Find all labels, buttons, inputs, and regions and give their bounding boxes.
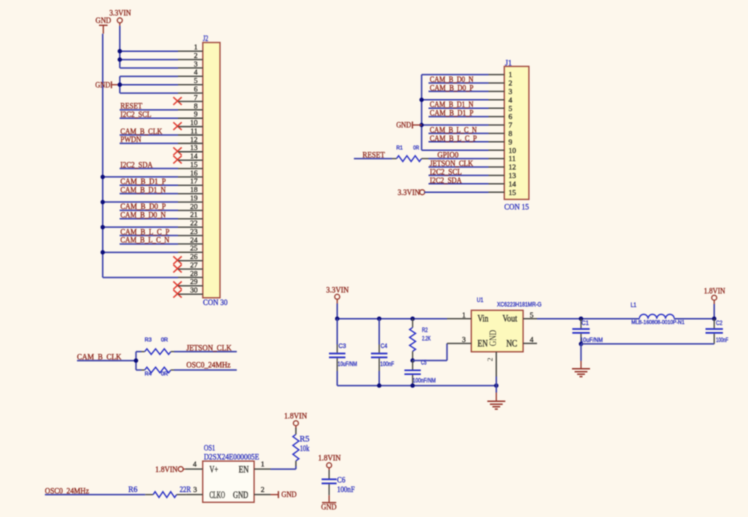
power port 1.8VIN (regulator output) [704, 286, 725, 304]
svg-text:3: 3 [193, 485, 197, 494]
no-connect X at J2 pin 27 [173, 265, 181, 273]
svg-text:2: 2 [486, 357, 495, 361]
net label CAM_B_CLK [120, 127, 162, 136]
svg-text:3.3VIN: 3.3VIN [398, 188, 421, 197]
net label CAM_B_D1_P [120, 177, 166, 186]
power port GND at J1 pin 7 [396, 121, 421, 130]
junction J2 pin1 [118, 49, 122, 53]
junction GND rail at J2 pin 25 [101, 250, 105, 254]
no-connect X at J2 pin 30 [173, 290, 181, 298]
wire C2 bottom to C1 bottom [581, 343, 714, 345]
no-connect X at J2 pin 13 [173, 147, 181, 155]
svg-text:R6: R6 [128, 485, 137, 494]
svg-text:GPIO0: GPIO0 [437, 151, 458, 160]
net label CAM_B_L_C_P [430, 134, 477, 143]
wire J1 pin 14 net I2C2_SDA [429, 183, 489, 185]
wire U1 Vout to C1/L1 [537, 318, 639, 320]
svg-text:5: 5 [530, 310, 534, 319]
wire J1 pin 8 net CAM_B_L_C_N [429, 132, 489, 134]
junction bottom rail U1 GND [494, 383, 498, 387]
net label I2C2_SCL [430, 167, 462, 176]
svg-text:0R: 0R [161, 338, 168, 344]
junction J2 pin2 [118, 57, 122, 61]
svg-text:22R: 22R [180, 485, 192, 494]
wire J2 pin 8 net RESET [120, 109, 178, 111]
junction splitter [134, 358, 138, 362]
inductor L1 MLB-160808-0010P-N1 [631, 303, 685, 326]
svg-text:GND: GND [281, 490, 296, 499]
net label CAM_B_D0_P [120, 202, 166, 211]
wire J1 pin 13 net I2C2_SCL [429, 174, 489, 176]
wire J2 pins 4-6 bracket [120, 76, 178, 93]
svg-text:2.2K: 2.2K [422, 336, 431, 342]
svg-text:R1: R1 [396, 146, 403, 152]
wire J2 pin 12 net PWDN [120, 142, 178, 144]
svg-text:1.8VIN: 1.8VIN [284, 411, 307, 420]
svg-text:Vout: Vout [503, 314, 518, 324]
svg-text:30: 30 [190, 286, 198, 295]
net label CAM_B_D1_P [430, 109, 474, 118]
net label OSC0_24MHz (bottom) [45, 487, 90, 496]
svg-text:1.8VIN: 1.8VIN [318, 453, 341, 462]
capacitor C3 10uF/NM [329, 319, 357, 386]
svg-text:CLKO: CLKO [210, 491, 226, 501]
svg-text:CON 15: CON 15 [504, 202, 529, 211]
wire OSC0_24MHz to R6 [45, 494, 145, 496]
svg-text:J1: J1 [505, 58, 512, 67]
svg-text:MLB-160808-0010P-N1: MLB-160808-0010P-N1 [631, 320, 684, 326]
svg-text:GND: GND [96, 16, 112, 25]
wire J2 pin 18 net CAM_B_D1_N [120, 193, 178, 195]
net label RESET [120, 102, 142, 111]
junction Vout C1 [579, 317, 583, 321]
wire J2 pin 21 net CAM_B_D0_N [120, 218, 178, 220]
svg-text:CAM_B_L_C_P: CAM_B_L_C_P [430, 134, 477, 143]
resistor R1 0R [392, 146, 429, 162]
svg-text:XC6223H181MR-G: XC6223H181MR-G [497, 302, 542, 309]
svg-text:CAM_B_D1_N: CAM_B_D1_N [120, 185, 166, 194]
wire J1 pin 5 net CAM_B_D1_N [429, 107, 489, 109]
svg-text:3: 3 [462, 335, 466, 344]
power port GND (top left) [96, 16, 112, 34]
junction J1 pin4 [419, 98, 423, 102]
svg-text:NC: NC [506, 339, 517, 349]
resistor R2 2.2K [410, 319, 431, 361]
wire R1 to J1 pin 11 net GPIO0 [429, 158, 489, 160]
svg-text:100nF: 100nF [337, 485, 355, 494]
svg-text:CAM_B_D1_P: CAM_B_D1_P [430, 109, 474, 118]
ground below C1 [572, 344, 590, 377]
capacitor C5 100nF/NM [404, 361, 435, 386]
junction GND rail at J2 pin 22 [101, 225, 105, 229]
svg-text:C5: C5 [421, 361, 427, 367]
svg-text:C3: C3 [339, 344, 347, 350]
wire 3.3VIN to J2 pins 1-3 [120, 26, 178, 68]
power port GND at J2 pins 4-6 [95, 80, 120, 89]
junction 1.8VIN C2 [712, 317, 716, 321]
wire R5 to OS1 EN [271, 468, 296, 470]
net label GPIO0 [437, 151, 458, 160]
junction bottom rail C4 [377, 383, 381, 387]
svg-text:J2: J2 [203, 34, 208, 43]
junction top rail C3 [335, 317, 339, 321]
power port 1.8VIN at C6 [318, 453, 341, 470]
resistor R3 0R [136, 338, 174, 355]
svg-text:1: 1 [261, 460, 265, 469]
net label JETSON_CLK [186, 344, 231, 353]
net label PWDN [120, 135, 141, 144]
svg-text:OS1: OS1 [204, 443, 215, 452]
junction GND rail at J2 pin 19 [101, 200, 105, 204]
junction J2 pin5 GND [118, 83, 122, 87]
svg-text:15: 15 [509, 188, 517, 197]
ground below U1 [487, 386, 505, 410]
svg-text:L1: L1 [631, 303, 637, 309]
svg-text:CON 30: CON 30 [203, 298, 228, 307]
svg-text:10k: 10k [300, 444, 310, 453]
wire J2 pin 24 net CAM_B_L_C_N [120, 243, 178, 245]
net label CAM_B_D1_N [120, 185, 166, 194]
svg-text:R5: R5 [300, 434, 310, 443]
svg-text:CAM_B_D0_N: CAM_B_D0_N [120, 211, 166, 220]
svg-text:CAM_B_L_C_N: CAM_B_L_C_N [120, 236, 169, 245]
power port GND below C6 [321, 495, 337, 511]
svg-text:R2: R2 [422, 328, 428, 334]
wire J1 pin 3 net CAM_B_D0_P [429, 90, 489, 92]
junction J1 pin7 [419, 123, 423, 127]
svg-text:0R: 0R [161, 372, 168, 378]
svg-text:4: 4 [530, 335, 534, 344]
net label OSC0_24MHz [186, 361, 231, 370]
junction C1 bottom node [579, 342, 583, 346]
svg-text:3.3VIN: 3.3VIN [109, 9, 131, 18]
wire J1 pin 9 net CAM_B_L_C_P [429, 141, 489, 143]
svg-text:GND: GND [95, 80, 110, 89]
svg-text:1.8VIN: 1.8VIN [155, 465, 178, 474]
svg-text:EN: EN [478, 339, 488, 349]
wire J2 pin 17 net CAM_B_D1_P [120, 184, 178, 186]
svg-text:10uF/NM: 10uF/NM [580, 338, 603, 344]
svg-text:100nF: 100nF [716, 338, 728, 344]
wire bottom rail [337, 385, 496, 387]
wire R4 to OSC0_24MHz [174, 369, 237, 371]
junction R2/C5/EN node [410, 358, 414, 362]
svg-text:R3: R3 [145, 338, 152, 344]
resistor R5 10k [293, 428, 310, 469]
svg-text:D2SX24E000005E: D2SX24E000005E [204, 452, 259, 461]
no-connect X at J2 pin 29 [173, 281, 181, 289]
net label RESET [363, 151, 385, 160]
wire J1 pin 6 net CAM_B_D1_P [429, 116, 489, 118]
svg-text:GND: GND [396, 121, 411, 130]
power port 3.3VIN at J1 pin 15 [398, 188, 425, 197]
net label CAM_B_L_C_P [120, 227, 169, 236]
power port 3.3VIN (top left) [109, 9, 131, 26]
connector J1 CON 15 [489, 58, 529, 211]
net label I2C2_SDA [430, 176, 462, 185]
capacitor C1 10uF/NM [572, 319, 603, 344]
svg-text:1: 1 [462, 310, 466, 319]
net label CAM_B_D0_N [430, 75, 474, 84]
svg-text:I2C2_SDA: I2C2_SDA [430, 176, 462, 185]
wire J2 pin 23 net CAM_B_L_C_P [120, 235, 178, 237]
net label JETSON_CLK [430, 159, 473, 168]
net label CAM_B_L_C_N [120, 236, 169, 245]
svg-text:V+: V+ [210, 465, 219, 475]
svg-text:Vin: Vin [478, 314, 489, 324]
resistor R4 0R [136, 367, 174, 378]
svg-text:PWDN: PWDN [120, 135, 141, 144]
capacitor C4 100nF [371, 319, 394, 386]
wire J2 pin 11 net CAM_B_CLK [120, 134, 178, 136]
wire 3.3VIN to J1 pin 15 [424, 191, 488, 193]
net label CAM_B_CLK [77, 353, 122, 362]
junction bottom rail C5 [410, 383, 414, 387]
wire L1 to 1.8VIN/C2 [674, 304, 714, 319]
junction top rail C4 [377, 317, 381, 321]
svg-text:1.8VIN: 1.8VIN [704, 286, 725, 295]
svg-text:2: 2 [261, 485, 265, 494]
junction GND rail at J2 pin 16 [101, 175, 105, 179]
svg-text:JETSON_CLK: JETSON_CLK [186, 344, 231, 353]
svg-text:I2C2_SDA: I2C2_SDA [120, 160, 152, 169]
svg-text:EN: EN [239, 465, 249, 475]
svg-text:C2: C2 [716, 321, 723, 327]
no-connect X at J2 pin 10 [173, 122, 181, 130]
capacitor C6 100nF [322, 470, 356, 495]
wire J2 pin 15 net I2C2_SDA [120, 168, 178, 170]
wire J1 pin 12 net JETSON_CLK [429, 166, 489, 168]
net label CAM_B_D0_P [430, 83, 474, 92]
svg-text:C6: C6 [337, 476, 345, 485]
no-connect X at J2 pin 7 [173, 97, 181, 105]
regulator U1 XC6223H181MR-G [447, 297, 542, 376]
svg-text:U1: U1 [477, 297, 484, 304]
wire U1 GND pin to bottom rail [495, 377, 497, 386]
connector J2 CON 30 [178, 34, 228, 307]
svg-text:GND: GND [233, 491, 248, 501]
wire GND left rail to J2 pins 16,19,22,25,28 [103, 34, 178, 278]
svg-text:R4: R4 [145, 372, 152, 378]
wire J2 pin 9 net I2C2_SCL [120, 117, 178, 119]
net label CAM_B_D1_N [430, 100, 474, 109]
power port 3.3VIN (regulator input) [326, 285, 349, 303]
svg-text:I2C2_SCL: I2C2_SCL [120, 110, 151, 119]
svg-text:OSC0_24MHz: OSC0_24MHz [186, 361, 231, 370]
net label I2C2_SCL [120, 110, 151, 119]
net label CAM_B_L_C_N [430, 125, 477, 134]
oscillator OS1 D2SX24E000005E [185, 443, 270, 502]
wire R2 node to U1 EN [413, 343, 447, 360]
svg-text:GND: GND [489, 330, 499, 346]
power port 1.8VIN at R5 [284, 411, 307, 428]
svg-text:CAM_B_D0_P: CAM_B_D0_P [430, 83, 474, 92]
no-connect X at J2 pin 26 [173, 256, 181, 264]
svg-text:100nF: 100nF [380, 362, 394, 368]
wire R3 to JETSON_CLK [174, 351, 237, 353]
svg-text:4: 4 [193, 460, 197, 469]
capacitor C2 100nF [706, 319, 729, 344]
svg-text:100nF/NM: 100nF/NM [413, 379, 436, 385]
svg-text:GND: GND [321, 503, 337, 512]
wire RESET to R1 [354, 158, 392, 160]
net label I2C2_SDA [120, 160, 152, 169]
junction top rail R2 [410, 317, 414, 321]
no-connect X at J2 pin 14 [173, 156, 181, 164]
svg-text:0R: 0R [413, 146, 419, 152]
wire J1 GND rail pins 1,4,7,10 [422, 75, 489, 151]
wire 3.3VIN rail to U1 Vin [337, 304, 447, 319]
svg-text:10uF/NM: 10uF/NM [338, 362, 357, 368]
svg-text:C1: C1 [582, 321, 590, 327]
svg-text:C4: C4 [381, 344, 388, 350]
svg-text:3.3VIN: 3.3VIN [326, 285, 349, 294]
wire CAM_B_CLK to splitter [77, 352, 136, 370]
power port GND at OS1 pin 2 [271, 490, 297, 499]
resistor R6 22R [128, 485, 191, 498]
wire J1 pin 2 net CAM_B_D0_N [429, 82, 489, 84]
net label CAM_B_D0_N [120, 211, 166, 220]
power port 1.8VIN at OS1 V+ [155, 465, 185, 474]
wire J2 pin 20 net CAM_B_D0_P [120, 209, 178, 211]
